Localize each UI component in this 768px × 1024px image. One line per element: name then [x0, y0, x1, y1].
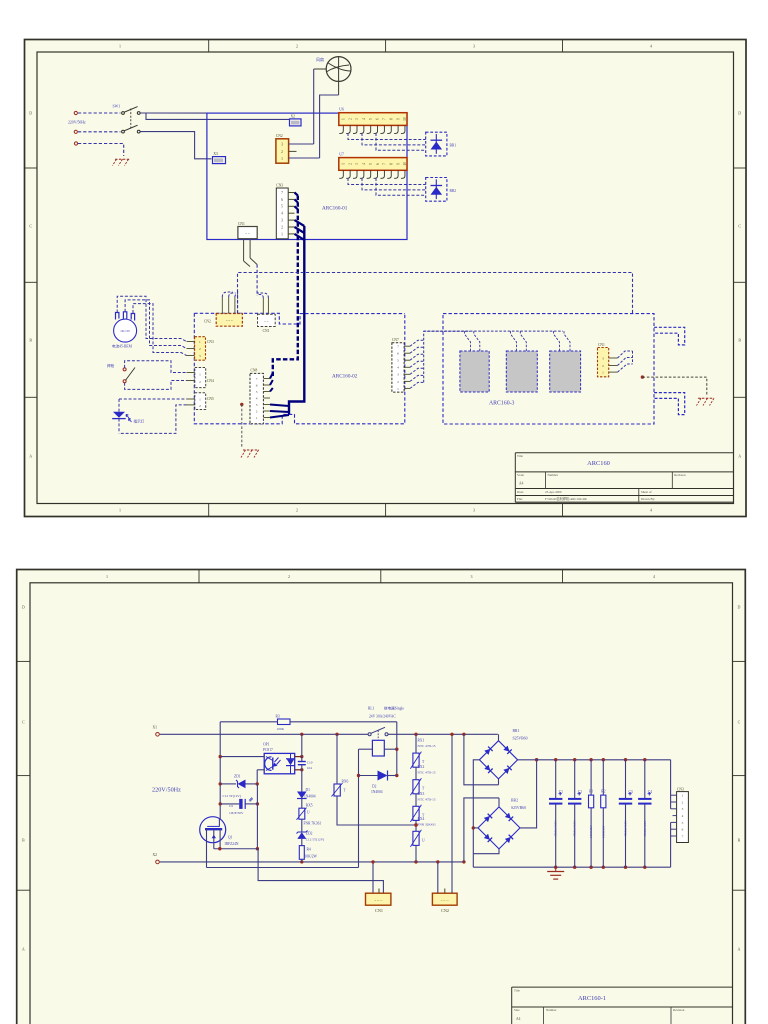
wire dashed harness rect: [238, 273, 633, 314]
svg-text:100K: 100K: [277, 727, 285, 731]
svg-text:U7: U7: [339, 152, 344, 156]
svg-text:3: 3: [473, 43, 475, 48]
wire BR2 left stub: [473, 827, 478, 829]
svg-text:~ ~: ~ ~: [245, 232, 250, 236]
wire RX column: [414, 734, 417, 862]
diode BR2: [426, 178, 457, 202]
wire dc+ bus: [518, 758, 671, 761]
resistor R4: [299, 846, 317, 860]
wire C9 row: [220, 802, 259, 805]
svg-text:ARC160-3: ARC160-3: [489, 401, 515, 407]
wire S2 to CN4: [125, 361, 187, 390]
svg-text:Size: Size: [514, 1008, 520, 1012]
wire RX6: [337, 734, 418, 826]
svg-text:RX4: RX4: [418, 817, 425, 821]
svg-text:4700U/400V: 4700U/400V: [554, 820, 558, 837]
wire right small rail: [256, 784, 259, 851]
svg-text:7: 7: [397, 345, 399, 349]
optocoupler OP1 PC817: [263, 742, 295, 774]
svg-text:CN3: CN3: [276, 184, 283, 188]
wire CN1 pin1: [371, 860, 374, 893]
wire OP1 pin3: [295, 768, 304, 771]
wire left rail: [219, 722, 222, 819]
capacitor C1: [549, 760, 563, 868]
relay RL1 labels: [368, 706, 404, 719]
svg-text:A4: A4: [519, 482, 524, 486]
svg-text:X3: X3: [213, 152, 218, 156]
svg-text:S25VB60: S25VB60: [511, 806, 526, 810]
svg-text:D: D: [737, 605, 740, 610]
svg-text:ARC160-01: ARC160-01: [322, 206, 348, 212]
terminal X2: [290, 114, 302, 126]
svg-text:A: A: [737, 947, 740, 952]
LED D3 indicator: [112, 412, 144, 424]
transistor Q1 IRFZ24N: [200, 817, 239, 868]
svg-text:CN2: CN2: [441, 908, 449, 913]
svg-text:Date:: Date:: [517, 490, 524, 494]
label 220V/50Hz page2: [152, 787, 181, 794]
wire N to SW1: [78, 131, 121, 133]
connector CN5 (board 02): [187, 393, 214, 410]
resistor R1: [589, 760, 594, 868]
svg-text:1: 1: [602, 371, 604, 375]
svg-text:继电器Single: 继电器Single: [384, 706, 404, 711]
svg-text:1: 1: [119, 508, 121, 513]
svg-text:F:\Work\信利焊机\ARC160.ddb: F:\Work\信利焊机\ARC160.ddb: [545, 496, 587, 501]
svg-text:D1: D1: [306, 788, 311, 792]
diode BR1: [426, 132, 457, 156]
svg-text:D: D: [738, 111, 741, 116]
wire coil left: [357, 749, 373, 867]
svg-text:2: 2: [296, 508, 298, 513]
wire CN1-3 pins to riser: [618, 351, 633, 372]
svg-text:150K/2W: 150K/2W: [601, 825, 605, 838]
svg-text:CN5: CN5: [207, 397, 214, 401]
connector CN3 (board 02): [187, 337, 214, 361]
svg-text:220V/50Hz: 220V/50Hz: [68, 121, 86, 125]
svg-text:7: 7: [256, 377, 258, 381]
svg-text:RX3: RX3: [418, 792, 425, 796]
varistor RX4: [410, 817, 436, 847]
wire ZD1 row: [220, 782, 259, 785]
svg-text:4: 4: [281, 212, 283, 216]
wire to CN1 pin2: [258, 849, 383, 893]
svg-text:1: 1: [342, 163, 346, 165]
wire OP1 pin2: [257, 770, 264, 784]
svg-text:7: 7: [281, 191, 283, 195]
wire fan bottom lead: [320, 81, 339, 158]
svg-text:ARC160-1: ARC160-1: [578, 995, 606, 1002]
connector CN2 (board 02): [204, 314, 242, 327]
switch SW1: [113, 105, 141, 133]
connector CN1 (board 3): [598, 343, 618, 377]
svg-text:Revision: Revision: [673, 1008, 685, 1012]
wire dc- bus: [473, 866, 670, 869]
relay RL1 switch: [368, 727, 388, 740]
svg-text:2: 2: [199, 347, 201, 351]
svg-text:7: 7: [383, 118, 387, 120]
wire Q1 source row: [214, 847, 258, 850]
svg-text:4: 4: [362, 163, 366, 165]
svg-text:X2: X2: [153, 853, 158, 857]
wire Q1 to coil return: [207, 867, 359, 869]
svg-text:IRFZ24N: IRFZ24N: [225, 842, 239, 846]
svg-text:C12 5T(12V): C12 5T(12V): [306, 837, 324, 841]
svg-text:1: 1: [342, 118, 346, 120]
svg-text:1: 1: [199, 397, 201, 401]
svg-text:A: A: [22, 947, 25, 952]
capacitor C10 104: [298, 760, 313, 770]
svg-text:2: 2: [602, 364, 604, 368]
svg-text:5: 5: [281, 205, 283, 209]
terminal X1: [153, 726, 160, 737]
svg-text:3: 3: [473, 508, 475, 513]
svg-text:~ ~ —: ~ ~ —: [441, 898, 450, 902]
svg-text:1: 1: [397, 387, 399, 391]
svg-text:ZD1: ZD1: [234, 775, 241, 779]
svg-text:150K/2W: 150K/2W: [589, 825, 593, 838]
diode D2: [371, 771, 388, 795]
svg-text:2: 2: [397, 380, 399, 384]
svg-text:NTC 47D-15: NTC 47D-15: [418, 797, 436, 801]
svg-text:S25VB60: S25VB60: [513, 737, 528, 741]
svg-text:CN1: CN1: [375, 908, 383, 913]
svg-text:6: 6: [281, 198, 283, 202]
svg-text:CN3: CN3: [677, 787, 684, 791]
wire D2 row: [359, 775, 397, 777]
svg-text:2: 2: [348, 163, 352, 165]
svg-text:6: 6: [682, 828, 684, 832]
svg-text:CN1: CN1: [598, 343, 605, 347]
svg-text:RX6: RX6: [342, 779, 349, 783]
node 220V input terminal N: [74, 130, 77, 133]
svg-text:SW1: SW1: [113, 105, 121, 109]
svg-text:C: C: [738, 720, 741, 725]
fan M1: [316, 56, 351, 81]
wire CN2-02 pins up: [222, 291, 237, 314]
svg-text:CN8: CN8: [251, 369, 258, 373]
svg-text:104: 104: [307, 766, 312, 770]
svg-text:CN1: CN1: [238, 222, 245, 226]
wire CN2 pins: [438, 862, 452, 893]
wire SW1 top to terminal X2: [146, 113, 290, 119]
wire CN2 pin1 to fan: [289, 157, 320, 159]
svg-text:Revision: Revision: [674, 473, 686, 477]
wire BR2 right to dc bus: [520, 758, 538, 828]
svg-text:1N4004: 1N4004: [371, 790, 383, 794]
wire BR1 left (dc-): [472, 760, 480, 867]
svg-text:4700U/400V: 4700U/400V: [624, 820, 628, 837]
transformer T3: [550, 331, 581, 392]
svg-text:3: 3: [281, 143, 283, 147]
svg-text:ZD2: ZD2: [306, 831, 313, 835]
svg-text:B: B: [29, 338, 32, 343]
svg-text:4: 4: [397, 366, 399, 370]
svg-text:4: 4: [682, 814, 684, 818]
svg-text:5: 5: [256, 390, 258, 394]
wire vertical 464 bottom: [464, 798, 499, 862]
wire transformer feed dashed: [424, 330, 563, 332]
connector CN1 page2: [366, 889, 391, 913]
wire CN1-02 pins up: [257, 293, 268, 314]
wire dashed to CN1 of board 02: [256, 265, 258, 297]
varistor RX6: [332, 779, 349, 796]
svg-text:6: 6: [376, 118, 380, 120]
wire coil right: [384, 748, 397, 750]
svg-text:3: 3: [256, 403, 258, 407]
varistor RX1: [410, 739, 435, 769]
wire CN3 pins top: [671, 760, 677, 816]
svg-text:2: 2: [281, 150, 283, 154]
ground output (red chassis): [697, 398, 715, 405]
svg-text:Title: Title: [517, 454, 523, 458]
svg-text:4: 4: [653, 574, 655, 579]
svg-text:焊枪: 焊枪: [107, 363, 115, 368]
svg-text:4: 4: [650, 508, 652, 513]
pins U6: [339, 125, 405, 133]
capacitor C4: [638, 760, 652, 868]
svg-text:ARC160: ARC160: [587, 460, 610, 467]
svg-text:2: 2: [281, 225, 283, 229]
svg-text:NTC 47D-15: NTC 47D-15: [418, 771, 436, 775]
svg-text:C12 5T(12V): C12 5T(12V): [223, 794, 241, 798]
wire CN7 pins to riser: [410, 331, 470, 388]
wire U7 to BR2 (dashed rows): [348, 178, 426, 195]
svg-text:PC817: PC817: [263, 748, 273, 752]
border frame: [17, 570, 746, 1024]
svg-text:U: U: [422, 838, 425, 842]
svg-text:D: D: [29, 111, 32, 116]
svg-text:2: 2: [288, 574, 290, 579]
svg-text:3: 3: [355, 118, 359, 120]
wire pot terminals to CN3-02: [117, 296, 186, 355]
svg-text:23-Apr-2006: 23-Apr-2006: [545, 490, 562, 494]
wire CN2 pin3 to fan: [289, 143, 314, 145]
svg-text:FNR 7K361: FNR 7K361: [304, 822, 322, 826]
zener ZD2: [297, 831, 325, 842]
svg-text:1: 1: [106, 574, 108, 579]
svg-text:A4: A4: [516, 1017, 521, 1021]
svg-text:3: 3: [602, 356, 604, 360]
svg-text:9: 9: [396, 163, 400, 165]
svg-text:RL1: RL1: [368, 707, 375, 711]
wire BR1 bottom: [498, 779, 500, 785]
svg-text:2: 2: [296, 43, 298, 48]
wire CN1 pin a down: [244, 239, 250, 267]
svg-text:电流45-BEM: 电流45-BEM: [112, 344, 133, 349]
module ARC160-3 box: [443, 314, 654, 424]
svg-text:D: D: [22, 605, 25, 610]
svg-text:CN1: CN1: [263, 329, 270, 333]
node 220V input terminal L: [74, 111, 77, 114]
capacitor C3: [619, 760, 633, 868]
svg-text:4700U/400V: 4700U/400V: [643, 820, 647, 837]
svg-text:1: 1: [682, 794, 684, 798]
svg-text:File:: File:: [517, 497, 523, 501]
wire fan left lead: [314, 69, 327, 144]
svg-text:1: 1: [256, 416, 258, 420]
svg-text:C: C: [29, 224, 32, 229]
svg-text:10: 10: [403, 162, 407, 166]
svg-text:5: 5: [397, 359, 399, 363]
svg-text:1: 1: [281, 157, 283, 161]
svg-text:6: 6: [376, 163, 380, 165]
svg-text:FNR 32K431: FNR 32K431: [418, 822, 437, 826]
svg-text:U6: U6: [339, 108, 344, 112]
svg-text:2: 2: [348, 118, 352, 120]
svg-text:4: 4: [256, 396, 258, 400]
resistor R2: [601, 760, 606, 868]
svg-text:B: B: [738, 338, 741, 343]
svg-text:Scale: Scale: [517, 473, 524, 477]
wire SW1 bottom to terminal X3: [140, 132, 211, 159]
module ARC160-02 box: [194, 313, 404, 424]
capacitor C2: [568, 760, 582, 868]
wire BR2 top: [498, 798, 500, 807]
svg-text:CN7: CN7: [392, 338, 399, 342]
svg-text:6: 6: [256, 383, 258, 387]
svg-text:3: 3: [355, 163, 359, 165]
connector CN2 (board 01): [276, 134, 289, 163]
transformer T1: [460, 331, 489, 392]
svg-text:4700U/400V: 4700U/400V: [573, 820, 577, 837]
svg-text:指示灯: 指示灯: [134, 418, 145, 423]
title block page1: [515, 453, 733, 502]
wire OP1 pin1: [220, 756, 264, 758]
svg-text:1: 1: [199, 372, 201, 376]
bus CN3 pins 7,6,5 hooks: [295, 193, 298, 210]
svg-text:Number: Number: [548, 473, 559, 477]
svg-text:10K/2W: 10K/2W: [305, 854, 318, 858]
terminal X2: [153, 853, 160, 864]
wire vertical 464 top: [464, 734, 499, 785]
svg-text:~ ~: ~ ~: [264, 319, 269, 323]
connector CN1 (board 01): [238, 222, 257, 239]
svg-text:1N4004: 1N4004: [304, 794, 316, 798]
svg-text:R3: R3: [276, 714, 280, 718]
svg-text:U: U: [307, 811, 310, 815]
wire U6 to BR1 (dashed rows): [348, 133, 426, 150]
svg-text:BR1: BR1: [513, 729, 520, 733]
svg-text:7: 7: [383, 163, 387, 165]
svg-text:6: 6: [397, 352, 399, 356]
module ARC160-01 box: [207, 113, 407, 239]
relay RL1 coil: [372, 740, 384, 756]
terminal X3: [213, 152, 226, 163]
svg-text:RX2: RX2: [418, 765, 425, 769]
svg-text:220V/50Hz: 220V/50Hz: [152, 787, 181, 794]
wire chain x=302: [301, 734, 303, 862]
connector CN8 (board 02): [250, 369, 270, 424]
svg-text:3: 3: [281, 219, 283, 223]
svg-text:CN2: CN2: [204, 319, 211, 323]
wire vertical 451: [450, 733, 453, 862]
svg-text:A: A: [29, 454, 32, 459]
svg-text:9: 9: [396, 118, 400, 120]
svg-text:OP1: OP1: [263, 742, 270, 746]
wire SW1 top to module box: [140, 112, 207, 114]
svg-text:4: 4: [362, 118, 366, 120]
bridge rectifier BR1: [479, 729, 527, 779]
svg-text:24V 30A/240VAC: 24V 30A/240VAC: [369, 715, 396, 719]
svg-text:10: 10: [403, 117, 407, 121]
diode D1: [297, 788, 316, 798]
wire PE to ground: [78, 144, 124, 157]
wire X1 line: [160, 733, 498, 736]
wire X2 line: [160, 860, 466, 863]
wire R3 line: [220, 721, 397, 723]
label 220V/50Hz: [68, 121, 86, 125]
wire CN3 pins bottom: [671, 822, 677, 867]
svg-text:3: 3: [471, 574, 473, 579]
svg-text:R4: R4: [307, 847, 311, 851]
potentiometer RP1 1K/1W: [112, 312, 137, 349]
connector CN3 page2: [677, 787, 689, 842]
bus B hooks into CN8: [270, 405, 289, 418]
svg-text:B: B: [738, 838, 741, 843]
bus A hooks into CN8: [270, 373, 273, 392]
switch S2 (torch): [107, 363, 135, 383]
svg-text:风扇: 风扇: [316, 56, 324, 62]
svg-text:X2: X2: [291, 114, 296, 118]
svg-text:Title: Title: [514, 988, 520, 992]
svg-text:8: 8: [389, 163, 393, 165]
svg-text:1: 1: [119, 43, 121, 48]
svg-text:RX1: RX1: [418, 739, 425, 743]
varistor RX2: [410, 765, 435, 795]
svg-text:4: 4: [650, 43, 652, 48]
svg-text:RX5: RX5: [306, 804, 313, 808]
svg-text:ARC160-02: ARC160-02: [332, 374, 358, 380]
varistor RX3: [410, 792, 435, 822]
bus A (dashed thick): [273, 196, 298, 377]
wire BR2 bottom: [473, 849, 499, 854]
output terminal hook -: [654, 393, 685, 415]
ground dc (red earth): [547, 867, 564, 879]
svg-text:NTC 47D-15: NTC 47D-15: [418, 744, 436, 748]
svg-text:1: 1: [199, 340, 201, 344]
svg-text:5: 5: [682, 821, 684, 825]
svg-text:~ ~ —: ~ ~ —: [374, 898, 383, 902]
svg-text:Drawn By:: Drawn By:: [641, 497, 655, 501]
svg-text:X1: X1: [153, 726, 158, 730]
wire LED loop to CN5: [119, 399, 187, 433]
svg-text:Number: Number: [546, 1008, 557, 1012]
connector CN2 page2: [432, 889, 457, 913]
svg-text:C10: C10: [307, 760, 313, 764]
pins U7: [339, 170, 405, 178]
resistor network U7: [339, 152, 407, 170]
svg-text:C9: C9: [229, 804, 233, 808]
connector CN1 (board 02): [258, 314, 276, 333]
node output mid: [641, 375, 707, 396]
border frame: [25, 40, 747, 517]
title block page2: [512, 987, 733, 1024]
bus CN3 pins 3,2,1 hooks: [295, 220, 305, 240]
svg-text:3: 3: [397, 373, 399, 377]
svg-text:C: C: [22, 720, 25, 725]
svg-text:8: 8: [389, 118, 393, 120]
svg-text:Sheet of: Sheet of: [641, 490, 652, 494]
svg-text:BR2: BR2: [450, 189, 457, 193]
svg-text:C: C: [738, 224, 741, 229]
svg-text:5: 5: [369, 118, 373, 120]
wire OP1 pin4: [295, 755, 304, 758]
svg-text:3: 3: [199, 354, 201, 358]
resistor R3: [276, 714, 291, 731]
svg-text:CN4: CN4: [207, 379, 214, 383]
svg-text:B: B: [22, 838, 25, 843]
